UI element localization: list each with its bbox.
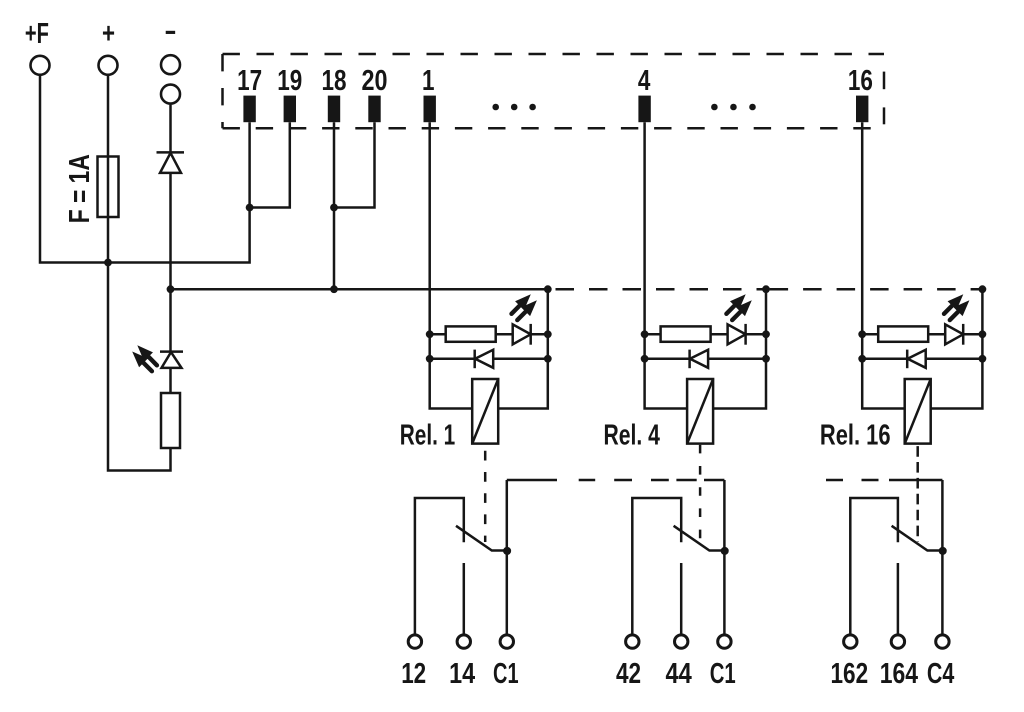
pin 19 terminal xyxy=(284,96,296,123)
contact Rel.16 lever xyxy=(892,526,943,551)
junction dot Rel.4 bus right xyxy=(762,285,770,293)
freewheel diode Rel.1 triangle xyxy=(475,350,493,368)
contact Rel.4 NC terminal riser xyxy=(632,498,681,634)
contact bus dashes Rel.4 to Rel.16 xyxy=(826,479,843,482)
svg-text:18: 18 xyxy=(322,65,347,97)
svg-text:F = 1A: F = 1A xyxy=(64,154,96,223)
junction dots Rel.16 diode row xyxy=(858,355,866,363)
relay coil Rel.16 xyxy=(905,379,931,444)
wire Rel.1 resistor row xyxy=(430,333,548,336)
actuator dashed link Rel.16 xyxy=(916,446,919,542)
wire Rel.4 resistor row xyxy=(645,333,766,336)
freewheel diode Rel.16 cathode bar xyxy=(906,350,909,369)
LED Rel.1 cathode bar xyxy=(529,324,532,345)
junction dot pins 17/19 join xyxy=(246,204,254,212)
svg-text:+: + xyxy=(102,18,115,50)
wire Rel.4 right branch from bus to coil right side xyxy=(713,289,766,408)
pin 1 terminal xyxy=(424,96,436,123)
wire - from D1 to LED L0 xyxy=(169,173,172,352)
junction dot contact Rel.4 xyxy=(721,547,729,555)
relay coil Rel.4 xyxy=(687,379,713,444)
junction dots Rel.4 resistor row xyxy=(641,330,649,338)
wire pin 18 down to minus bus xyxy=(333,122,336,289)
contact Rel.16 NC terminal riser xyxy=(850,498,898,634)
LED Rel.16 cathode bar xyxy=(962,324,965,345)
connector box bottom edge (dashed) xyxy=(223,127,885,130)
pin 18 terminal xyxy=(328,96,340,123)
contact Rel.1 NC terminal riser xyxy=(415,498,464,634)
junction dot pins 18/20 join xyxy=(330,204,338,212)
LED Rel.16 arrows xyxy=(948,294,964,310)
junction dot Rel.1 bus right xyxy=(544,285,552,293)
svg-text:+F: +F xyxy=(25,18,49,50)
contact Rel.1 common vertical xyxy=(506,480,509,634)
contact Rel.1 NO post xyxy=(463,563,466,634)
svg-text:Rel. 16: Rel. 16 xyxy=(820,420,891,452)
terminal circle C1 xyxy=(500,635,513,648)
LED L0 arrows xyxy=(137,345,153,361)
wire +F down and bus to pin 17 riser xyxy=(40,76,250,263)
connector box top edge (dashed) xyxy=(223,53,885,56)
svg-text:C1: C1 xyxy=(493,658,519,690)
junction dots Rel.1 diode row xyxy=(426,355,434,363)
svg-text:20: 20 xyxy=(362,65,388,97)
diode D1 cathode bar xyxy=(157,151,185,154)
LED Rel.4 triangle xyxy=(728,324,746,344)
junction dot - bus xyxy=(167,285,175,293)
terminal circle 42 xyxy=(626,635,639,648)
wire Rel.1 right branch from bus to coil right side xyxy=(498,289,548,408)
wire Rel.1 freewheel diode row xyxy=(430,358,548,361)
freewheel diode Rel.16 triangle xyxy=(908,350,926,368)
contact Rel.4 NO post xyxy=(680,563,683,634)
svg-text:19: 19 xyxy=(277,65,302,97)
svg-text:164: 164 xyxy=(880,658,918,690)
contact Rel.4 common vertical xyxy=(723,480,726,634)
pin 4 terminal xyxy=(638,96,650,123)
actuator dashed link Rel.1 xyxy=(484,451,487,542)
minus bus dashed segment to Rel.4 xyxy=(556,288,767,291)
contact bus solid into Rel.4 corner xyxy=(704,479,724,482)
pin 20 terminal xyxy=(368,96,380,123)
LED L0 cathode bar xyxy=(160,350,183,353)
LED Rel.1 triangle xyxy=(513,324,531,344)
contact Rel.1 lever xyxy=(456,526,507,551)
freewheel diode Rel.4 triangle xyxy=(690,350,708,368)
terminal circle 164 xyxy=(891,635,904,648)
svg-text:1: 1 xyxy=(422,65,435,97)
resistor Rel.4 series xyxy=(661,326,711,341)
wire pin 20 to join node xyxy=(334,122,375,207)
resistor R0 xyxy=(161,393,180,448)
wire pin 4 down to coil left side xyxy=(645,122,688,408)
contact bus solid stub from C1 of Rel.1 xyxy=(507,479,557,482)
wire pin 16 down to coil left side xyxy=(862,122,905,408)
minus bus solid segment xyxy=(171,288,548,291)
svg-text:C1: C1 xyxy=(710,658,736,690)
wire Rel.4 freewheel diode row xyxy=(645,358,766,361)
minus bus dashed segment to Rel.16 xyxy=(770,288,983,291)
terminal - circle upper xyxy=(161,55,180,74)
terminal circle 14 xyxy=(457,635,470,648)
contact Rel.16 common vertical xyxy=(941,480,944,634)
relay coil Rel.1 xyxy=(472,379,498,444)
junction dots Rel.4 diode row xyxy=(641,355,649,363)
wire - to diode D1 xyxy=(169,105,172,153)
LED Rel.4 cathode bar xyxy=(744,324,747,345)
svg-text:16: 16 xyxy=(848,65,873,97)
freewheel diode Rel.4 cathode bar xyxy=(688,350,691,369)
LED Rel.16 triangle xyxy=(945,324,963,344)
contact Rel.4 lever xyxy=(674,526,725,551)
svg-text:42: 42 xyxy=(616,658,641,690)
svg-text:C4: C4 xyxy=(927,658,954,690)
wire Rel.16 right branch from bus to coil right side xyxy=(931,289,983,408)
contact Rel.16 NO post xyxy=(897,563,900,634)
junction dot contact Rel.16 xyxy=(939,547,947,555)
terminal circle 12 xyxy=(408,635,421,648)
diode D1 triangle xyxy=(160,153,181,173)
svg-text:162: 162 xyxy=(831,658,869,690)
resistor Rel.1 series xyxy=(446,326,496,341)
wire pin 1 down to coil left side xyxy=(430,122,473,408)
ellipsis dots between pin 1 and pin 4 xyxy=(492,104,499,111)
svg-text:−: − xyxy=(165,17,176,49)
junction dots Rel.1 resistor row xyxy=(426,330,434,338)
svg-text:Rel. 4: Rel. 4 xyxy=(604,420,660,452)
actuator dashed link Rel.4 xyxy=(699,445,702,542)
wire Rel.16 freewheel diode row xyxy=(862,358,982,361)
fuse F = 1A xyxy=(98,157,119,218)
terminal +F circle xyxy=(31,56,50,75)
resistor Rel.16 series xyxy=(878,326,928,341)
connector box left edge (dashed) xyxy=(221,54,224,128)
contact bus dashes Rel.1 to Rel.4 xyxy=(579,479,596,482)
contact bus solid into Rel.16 corner xyxy=(889,479,942,482)
terminal circle 44 xyxy=(675,635,688,648)
pin 16 terminal xyxy=(856,96,868,123)
svg-text:12: 12 xyxy=(401,658,426,690)
terminal circle C1 xyxy=(718,635,731,648)
svg-text:4: 4 xyxy=(638,65,651,97)
junction dots Rel.16 resistor row xyxy=(858,330,866,338)
pin 17 terminal xyxy=(243,96,255,123)
LED Rel.4 arrows xyxy=(730,294,746,310)
connector box right edge (dashed) xyxy=(883,72,886,90)
LED Rel.1 arrows xyxy=(515,294,531,310)
terminal + circle xyxy=(99,56,118,75)
junction dot Rel.16 bus right xyxy=(979,285,987,293)
terminal - circle lower xyxy=(161,85,180,104)
freewheel diode Rel.1 cathode bar xyxy=(473,350,476,369)
svg-text:Rel. 1: Rel. 1 xyxy=(400,420,456,452)
ellipsis dots between pin 4 and pin 16 xyxy=(711,104,718,111)
wire LED L0 to resistor R0 xyxy=(169,368,172,393)
junction dot contact Rel.1 xyxy=(503,547,511,555)
LED L0 triangle xyxy=(162,352,182,368)
junction dot + wire on +F bus xyxy=(104,259,112,267)
svg-text:44: 44 xyxy=(665,658,691,690)
junction dot pin 18 on minus bus xyxy=(330,285,338,293)
svg-text:17: 17 xyxy=(237,65,262,97)
wire Rel.16 resistor row xyxy=(862,333,982,336)
wire + down through fuse to resistor bottom xyxy=(108,76,171,471)
terminal circle C4 xyxy=(936,635,949,648)
terminal circle 162 xyxy=(844,635,857,648)
svg-text:14: 14 xyxy=(449,658,475,690)
wire pin 19 to join node xyxy=(250,122,290,207)
